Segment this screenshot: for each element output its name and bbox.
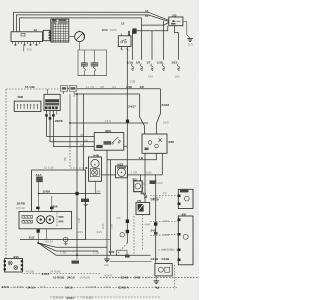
ground 31/08 bbox=[81, 199, 89, 206]
stop lamp switch 22B bbox=[102, 28, 137, 47]
scan noise overlay bbox=[0, 0, 199, 300]
ground 31/5 bbox=[63, 237, 68, 245]
wire A supply 30 bbox=[14, 12, 169, 32]
lower panel box bbox=[20, 170, 86, 240]
fuse wire 4 bbox=[162, 21, 164, 60]
ground 31/44 bbox=[104, 259, 110, 267]
wire C supply X bbox=[20, 18, 169, 32]
fuse 1/8 bbox=[136, 60, 143, 71]
cruise servo motor bbox=[116, 162, 128, 177]
wire table to ignition switch bbox=[69, 36, 75, 38]
fuse wire 3 bbox=[151, 31, 153, 60]
long vertical v2 bbox=[76, 94, 78, 255]
dashed vertical right bbox=[174, 265, 176, 290]
dashed vertical x134 bbox=[133, 216, 135, 255]
dashed instrument cluster box bbox=[6, 88, 74, 90]
switch 30/8 bbox=[94, 129, 124, 150]
fuse table 1/1 bbox=[51, 19, 69, 42]
small connector box right of unit bbox=[43, 30, 50, 40]
pedal sensor 8/5 bbox=[133, 177, 147, 197]
dashed row A bbox=[24, 273, 101, 275]
connector boxes 14B bbox=[61, 86, 77, 92]
bottom connector box bbox=[4, 255, 24, 272]
cluster feed wire 1 bbox=[63, 88, 160, 90]
stop switch riser thick bbox=[128, 31, 130, 36]
lamp unit C24B bbox=[151, 257, 173, 276]
wire to relay 24/18 bbox=[157, 89, 161, 134]
dashed row A2 bbox=[100, 276, 199, 278]
fuse wire 1 bbox=[131, 31, 133, 60]
relay bottom pin wires bbox=[144, 153, 146, 202]
dashed vertical from clock bbox=[142, 215, 144, 250]
fuse wire 2 bbox=[141, 25, 143, 60]
long vertical v4 bbox=[110, 159, 112, 255]
hazard switch pack 28A bbox=[16, 202, 72, 229]
servo wires bbox=[102, 174, 116, 176]
wire D relay to stop switch bbox=[132, 26, 167, 31]
fuse 11/1 bbox=[127, 60, 134, 71]
clock 7/5 bbox=[136, 199, 150, 215]
relay output wire to ground 31/9 bbox=[183, 22, 190, 39]
wire long vertical to relay pin bbox=[107, 153, 156, 160]
fuse mid 1 bbox=[81, 50, 87, 76]
wire B supply 15 bbox=[17, 15, 169, 32]
relay pin2 wire to fuse 5 bbox=[175, 26, 179, 60]
ground 31/4 bbox=[155, 276, 157, 281]
dashed diag 34/9 bbox=[116, 243, 127, 255]
relay 15/1 bbox=[169, 13, 183, 25]
central electrical unit 4/25 bbox=[11, 28, 43, 45]
cluster pin strip bbox=[14, 101, 41, 111]
stop switch lower stubs bbox=[121, 47, 123, 51]
stop switch long wire down to switch 30/8 bbox=[126, 47, 128, 147]
wire from ground area right bbox=[110, 260, 152, 262]
switch pack top pins bbox=[39, 194, 52, 212]
squares on wire x155 bbox=[145, 222, 158, 234]
junction fan bbox=[37, 242, 39, 244]
relay 24/2 bbox=[142, 134, 174, 153]
switch pack bottom pins bbox=[38, 229, 47, 243]
switch output wire bbox=[124, 146, 128, 243]
fuse 1/13 bbox=[171, 60, 179, 71]
dashed row B bbox=[2, 287, 179, 289]
dashed wires into 9/2 bbox=[150, 195, 178, 197]
ignition feed rectangle path bbox=[79, 42, 81, 50]
speedometer assembly A4B bbox=[89, 153, 102, 181]
cluster feed wire 2 bbox=[74, 93, 140, 95]
cluster connector block dark bbox=[44, 89, 60, 111]
component A1A bbox=[36, 173, 43, 182]
ignition switch circle bbox=[75, 30, 85, 41]
fuse mid 2 bbox=[91, 50, 98, 76]
junction wire to 34/18 bbox=[76, 255, 78, 260]
fuse 1/7 bbox=[146, 60, 153, 71]
right lamp module 4/8 bbox=[178, 213, 194, 265]
wire panel bottom extension bbox=[86, 239, 111, 241]
long vertical v1 to speedometer bbox=[69, 94, 71, 147]
fuse 1/18 bbox=[157, 60, 165, 71]
wire to relay 24/17 bbox=[140, 94, 145, 134]
dashed row C bbox=[50, 296, 160, 298]
long vertical wire from switch 30/8 down page bbox=[106, 150, 108, 259]
junction 15/08 bbox=[38, 193, 40, 195]
wire 3 horizontal bbox=[70, 122, 148, 124]
junction squares on wire x128 bbox=[117, 216, 130, 237]
ground 31/9 bbox=[187, 39, 193, 47]
small box 31/8 bbox=[117, 250, 130, 257]
connector stub below unit bbox=[23, 46, 25, 52]
cluster bottom wires to switch 30/8 bbox=[47, 111, 95, 137]
wire connector squares bbox=[45, 114, 48, 116]
right actuator 9/2 bbox=[178, 189, 194, 208]
long vertical v3 bbox=[83, 94, 85, 170]
connector 24/2 label bbox=[150, 180, 157, 184]
dashed wires into 4/8 bbox=[150, 221, 178, 223]
